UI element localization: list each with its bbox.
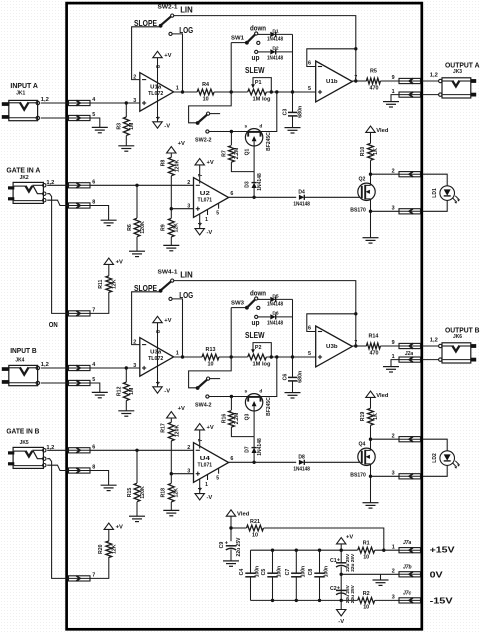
diode D2 1N4148 [270,49,275,54]
resistor R18 12K to ground [170,474,172,484]
svg-text:JK4: JK4 [15,358,24,364]
-V supply symbol (power) [340,600,342,609]
svg-text:5: 5 [308,86,311,92]
svg-text:-V: -V [207,495,213,501]
bypass capacitor C5 100n [271,549,274,552]
wire Q1 drain to slew node [261,92,277,132]
wire gate sleeve to ground [47,465,108,485]
ground [129,515,145,517]
+V supply symbol [104,258,113,264]
svg-text:+V: +V [207,425,214,431]
resistor R5 470 [366,78,380,84]
svg-text:R16: R16 [221,414,227,424]
svg-text:JK6: JK6 [453,334,462,340]
junction [170,207,173,210]
svg-text:8: 8 [156,330,162,333]
svg-text:2: 2 [392,168,395,174]
wire jack switch contact to R11 [47,194,109,314]
svg-text:C1: C1 [330,558,337,564]
svg-text:U1a: U1a [150,85,162,91]
ON connector pin 7 [69,311,91,316]
svg-text:100n: 100n [255,566,261,577]
svg-text:2: 2 [392,433,395,439]
+V supply pin 7 of U4 [199,430,201,449]
svg-text:D6: D6 [272,311,279,317]
wire Q3 drain to slew node [261,357,277,397]
Vled supply symbol [366,126,375,132]
svg-text:1: 1 [205,217,208,223]
+V supply pin 7 of U2 [199,165,201,184]
svg-text:2.2M: 2.2M [234,413,240,425]
svg-text:120K: 120K [140,486,146,499]
svg-text:1N4148: 1N4148 [267,37,283,43]
wire -15V rail [251,599,358,601]
svg-text:R9: R9 [161,224,167,231]
input connector pin 4 [69,100,91,105]
resistor R19 1K [368,408,374,425]
bypass capacitor C4 100n [250,550,252,573]
svg-text:-V: -V [164,388,170,394]
svg-text:1: 1 [205,482,208,488]
svg-text:9: 9 [392,340,395,346]
junction 0V [340,573,343,576]
svg-text:5: 5 [308,351,311,357]
pins 1/5 stubs of U2 [207,210,209,215]
svg-text:up: up [252,318,261,327]
svg-text:3: 3 [187,468,190,474]
svg-text:+V: +V [207,160,214,166]
svg-text:d: d [259,123,262,129]
schematic border frame [67,3,422,629]
svg-text:7: 7 [354,75,357,81]
resistor R6 120K to ground [136,185,138,218]
wire LOG feedback from U3a output [172,299,182,357]
gate out connector pin 2 [371,438,400,440]
svg-text:BS170: BS170 [350,208,366,214]
svg-text:1: 1 [176,85,179,91]
svg-text:R14: R14 [368,334,378,340]
ground [129,250,145,252]
diode D8 1N4148 [299,460,304,465]
resistor R2 10 [358,598,375,604]
junction [135,184,138,187]
input sleeve connector pin 5 [69,380,91,385]
-V supply pin 4 of U4 [199,479,201,494]
svg-text:P2: P2 [255,345,262,351]
resistor R7 2.2M [230,132,232,146]
svg-text:680n: 680n [298,106,304,118]
svg-text:LIN: LIN [180,5,193,14]
svg-text:4: 4 [198,222,204,225]
svg-text:R7: R7 [221,150,227,157]
LED LD1 [423,174,448,211]
op-amp U2 TL071 [194,178,229,218]
svg-text:12K: 12K [111,279,117,289]
svg-text:7: 7 [92,572,95,578]
switch SW4-1 (slope select) [160,281,171,290]
svg-text:10: 10 [208,361,214,367]
resistor R21 10 [231,527,246,529]
svg-text:BF245C: BF245C [266,397,272,416]
diode D4 1N4148 [299,195,304,200]
svg-text:TL072: TL072 [148,91,163,97]
op-amp U3b [316,326,353,367]
svg-text:1,2: 1,2 [430,72,438,78]
wire R21 to +15V rail [264,528,384,550]
wire to diode D1 [258,33,270,35]
svg-text:R12: R12 [117,386,123,396]
-V supply pin 4 of U2 [199,214,201,229]
potentiometer P1 1M log (SLEW) [248,89,267,95]
capacitor C3 680n [292,92,294,112]
svg-text:6: 6 [308,325,311,331]
svg-text:7: 7 [354,340,357,346]
ground [285,392,301,394]
svg-text:470: 470 [370,85,379,91]
pins 1/5 stubs of U4 [207,475,209,480]
wire R8 to R9 [170,176,172,209]
svg-text:+V: +V [164,53,171,59]
svg-text:9: 9 [392,75,395,81]
wire SW4-2 to Q3 source [209,396,248,398]
svg-text:1N4148: 1N4148 [257,438,263,456]
ground [223,560,239,562]
svg-text:6: 6 [230,191,233,197]
svg-text:5: 5 [216,476,219,482]
MOSFET Q2 BS170 [358,183,375,200]
wire Q4 drain [370,425,372,450]
svg-text:SW1: SW1 [231,35,244,41]
svg-text:5: 5 [92,112,95,118]
wire SLOPE bracket to U3a pin 2 [132,292,161,345]
svg-text:SLOPE: SLOPE [134,19,157,28]
svg-text:10: 10 [363,605,369,611]
wire to diode D6 [258,316,270,318]
svg-text:8: 8 [92,465,95,471]
svg-text:3: 3 [392,471,395,477]
svg-text:Vled: Vled [237,511,250,517]
wire connector to ground [391,360,399,367]
svg-text:5: 5 [92,377,95,383]
svg-text:Q3: Q3 [245,413,251,420]
svg-text:1M log: 1M log [253,362,272,368]
svg-text:down: down [250,23,266,32]
ground [380,574,382,580]
svg-text:R18: R18 [161,488,167,498]
bypass capacitor C7 100n [295,549,298,552]
svg-text:C3: C3 [283,109,289,116]
potentiometer P2 1M log (SLEW) [248,354,267,360]
junction [369,475,372,478]
svg-text:+V: +V [116,260,123,266]
ground [163,244,179,246]
junction [229,526,232,529]
svg-text:4: 4 [198,487,204,490]
svg-text:2: 2 [133,339,136,345]
svg-text:Vled: Vled [376,128,389,134]
svg-text:R15: R15 [127,488,133,498]
junction [125,101,128,104]
svg-text:R17: R17 [161,423,167,433]
svg-text:1M: 1M [129,123,135,130]
wire LIN feedback from U3b output [174,281,356,346]
wire connector to ground [391,95,399,102]
+V supply symbol above U3a [153,316,162,322]
svg-text:7: 7 [198,174,204,177]
ground [101,219,117,221]
svg-text:TL071: TL071 [198,198,213,204]
wire border to JK6 [422,345,439,347]
junction [291,90,294,93]
svg-text:1,2: 1,2 [430,337,438,343]
junction [369,210,372,213]
wire U1b output [352,80,366,82]
junction [369,173,372,176]
svg-text:U2: U2 [200,191,210,197]
junction [354,312,357,315]
svg-text:1,2: 1,2 [46,180,54,186]
junction [340,599,343,602]
svg-text:Q1: Q1 [245,148,251,155]
svg-text:C7: C7 [285,569,291,576]
wire diode bus to slew node [276,34,293,92]
svg-text:Q2: Q2 [358,176,365,182]
svg-text:GATE IN B: GATE IN B [6,427,39,436]
+V supply symbol (power) [337,538,346,544]
svg-text:J7b: J7b [403,564,412,570]
svg-text:120K: 120K [174,160,180,173]
ground [285,127,301,129]
resistor R4 10 [174,91,198,93]
svg-text:SLOPE: SLOPE [134,284,157,293]
resistor R10 1K [368,143,374,160]
svg-text:7: 7 [198,439,204,442]
svg-text:R8: R8 [161,160,167,167]
junction [270,90,273,93]
svg-text:R2: R2 [363,591,370,597]
electrolytic capacitor C1 22u 25V [340,549,343,552]
svg-text:4: 4 [92,362,95,368]
gate out connector pin 3 [371,475,400,477]
svg-text:2: 2 [392,569,395,575]
wire LOG feedback from U1a output [172,34,182,92]
svg-text:3: 3 [392,595,395,601]
wire Q4 source to ground [370,464,372,503]
ground [92,391,108,393]
diode D7 1N4148 [253,437,255,448]
+V supply symbol for R17 [167,412,176,418]
junction [354,344,357,347]
svg-text:-15V: -15V [430,596,454,605]
junction [354,47,357,50]
wire Q2 drain [370,160,372,185]
svg-text:2: 2 [187,180,190,186]
+V supply symbol above U1a [153,51,162,57]
svg-text:3: 3 [187,203,190,209]
wire gate sleeve to ground [47,200,108,220]
svg-text:1K: 1K [373,148,379,155]
svg-text:680n: 680n [298,371,304,383]
wire to slew network [219,356,248,358]
svg-text:D7: D7 [244,446,250,453]
bypass capacitor C8 100n [318,549,321,552]
svg-text:470: 470 [370,350,379,356]
svg-text:0V: 0V [430,570,444,579]
svg-text:BS170: BS170 [350,473,366,479]
svg-text:+V: +V [116,525,123,531]
svg-text:4: 4 [156,381,162,384]
svg-text:2: 2 [133,74,136,80]
diode D1 1N4148 [270,32,275,37]
junction [270,355,273,358]
svg-text:R6: R6 [127,224,133,231]
svg-text:R13: R13 [206,347,216,353]
ground [383,101,399,103]
svg-text:12K: 12K [111,544,117,554]
wire U4 pin 3 [171,473,193,475]
svg-text:12K: 12K [174,223,180,233]
wire slew node to U3b [266,356,315,358]
svg-text:D5: D5 [272,293,279,299]
svg-text:TL071: TL071 [198,463,213,469]
svg-text:JK1: JK1 [16,91,25,97]
junction [354,79,357,82]
svg-text:100n: 100n [324,566,330,577]
svg-text:J7c: J7c [403,591,412,597]
svg-text:1N4148: 1N4148 [257,173,263,191]
junction [382,549,385,552]
svg-text:BF245C: BF245C [266,132,272,151]
svg-text:R1: R1 [363,541,370,547]
wire diode bus to slew node [276,299,293,357]
svg-text:U1b: U1b [326,79,338,85]
ground [163,509,179,511]
wire feedback U1b [307,49,356,67]
diode D5 1N4148 [270,297,275,302]
svg-text:LD1: LD1 [432,188,438,198]
-V supply symbol below U3a [153,387,162,393]
svg-text:8: 8 [92,200,95,206]
switch SW2-1 (slope select) [160,16,171,25]
svg-text:d: d [259,388,262,394]
ON connector pin 7 [69,576,91,581]
svg-text:SW4-2: SW4-2 [195,403,212,409]
junction [135,449,138,452]
wire gate input to U4 pin 2 [47,449,193,451]
svg-text:INPUT A: INPUT A [10,81,38,90]
wire SW2-2 to Q1 source [209,131,248,133]
junction [275,355,278,358]
junction [252,461,255,464]
resistor R9 12K to ground [170,209,172,219]
power rail lead pins 8/4 of U3a [157,323,159,387]
wire to diode D2 [258,51,270,53]
svg-text:12K: 12K [174,488,180,498]
svg-text:TL072: TL072 [148,356,163,362]
svg-text:1: 1 [176,350,179,356]
svg-text:+V: +V [178,406,185,412]
stub wire n.c. contact [210,378,220,380]
power rail lead pins 8/4 of U1a [157,58,159,122]
svg-text:1M log: 1M log [253,97,272,103]
wire jack switch contact to R20 [47,459,109,579]
svg-text:D1: D1 [272,28,279,34]
svg-text:Vled: Vled [376,393,389,399]
svg-text:Q4: Q4 [358,441,365,447]
wire +15V rail [251,549,358,551]
wire Q3 gate [253,406,255,436]
svg-text:6: 6 [230,456,233,462]
svg-text:1: 1 [392,544,395,550]
svg-text:1,2: 1,2 [41,97,49,103]
svg-text:R19: R19 [360,412,366,422]
diode D3 1N4148 [253,172,255,183]
svg-text:LD2: LD2 [432,453,438,463]
svg-text:C4: C4 [239,569,245,576]
op-amp U4 TL071 [194,443,229,483]
svg-text:10: 10 [252,532,258,538]
junction [170,472,173,475]
svg-text:100n: 100n [301,566,307,577]
svg-text:JK2: JK2 [20,175,29,181]
svg-text:U3b: U3b [326,344,338,350]
gate sleeve connector pin 8 [69,203,91,208]
svg-text:D4: D4 [298,189,305,195]
resistor R1 10 [358,547,375,553]
svg-text:1N4148: 1N4148 [293,466,310,472]
capacitor C6 680n [292,357,294,377]
switch SW4-2 [196,386,200,390]
svg-text:+V: +V [346,534,353,540]
svg-text:R4: R4 [202,82,209,88]
svg-text:4: 4 [156,116,162,119]
svg-text:1N4148: 1N4148 [267,321,283,327]
junction [252,196,255,199]
wire U3b output [352,345,366,347]
wire feedback U3b [307,314,356,332]
svg-text:INPUT B: INPUT B [10,346,37,355]
svg-text:OUTPUT B: OUTPUT B [445,325,480,334]
svg-text:J2a: J2a [405,351,414,357]
svg-text:1N4148: 1N4148 [267,56,283,62]
svg-text:SW4-1: SW4-1 [158,270,178,276]
svg-text:7: 7 [92,307,95,313]
LED LD2 [423,439,448,476]
resistor R13 10 [174,356,202,358]
svg-text:C2: C2 [330,586,337,592]
svg-text:1M: 1M [129,388,135,395]
svg-text:-V: -V [207,230,213,236]
input connector pin 4 [69,365,91,370]
resistor R11 12K pull-up [106,276,112,292]
ground [101,484,117,486]
+V supply symbol [104,523,113,529]
svg-text:6: 6 [92,444,95,450]
wire to diode D5 [258,298,270,300]
svg-text:LIN: LIN [180,270,193,279]
wire SW4-1 common to SW3 [189,308,232,388]
junction [230,130,233,133]
wire Q2 source to ground [370,199,372,238]
wire SLOPE bracket to U1a pin 2 [132,27,161,80]
svg-text:U3a: U3a [150,350,162,356]
wire input sleeve to ground [41,383,100,392]
resistor R12 1M to ground [125,368,127,382]
svg-text:3: 3 [392,206,395,212]
ground [118,410,134,412]
ground [363,237,379,239]
-V supply symbol below U1a [153,122,162,128]
